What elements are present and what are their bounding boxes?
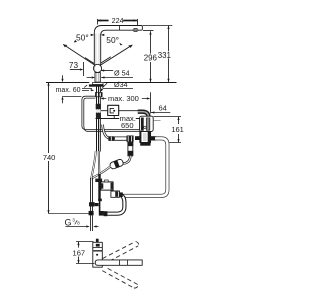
supply tail below dot [91, 215, 93, 231]
svg-text:740: 740 [43, 153, 56, 162]
counter hatch left [84, 85, 87, 87]
svg-text:G: G [65, 218, 72, 228]
check valve body [101, 182, 113, 190]
cross fitting [127, 136, 134, 143]
valve pipe right dark [98, 174, 100, 201]
dia34 arrows at tube [87, 77, 133, 79]
shank hoses below counter [97, 86, 101, 151]
fitting row left nut [108, 136, 114, 141]
outlet pipe loop (gray) [121, 138, 167, 196]
svg-text:296: 296 [144, 54, 158, 63]
dim 224 line [98, 19, 137, 21]
svg-text:50°: 50° [106, 35, 119, 45]
dim 167 [76, 242, 95, 264]
swivel line left [63, 44, 96, 66]
J hose [107, 194, 124, 213]
svg-text:Ø 54: Ø 54 [114, 69, 130, 78]
hose from filter to left pipe (crossing) [91, 166, 110, 178]
escutcheon [92, 83, 103, 85]
svg-text:50°: 50° [76, 33, 89, 43]
supply hose to box [101, 110, 138, 112]
svg-text:73: 73 [69, 61, 79, 70]
control box [140, 116, 154, 131]
svg-text:max. 300: max. 300 [108, 94, 139, 103]
dim 331 [168, 26, 170, 82]
box right connector [151, 136, 156, 140]
hose from bundle arcing to fitting row [103, 125, 112, 139]
label max 650 [119, 115, 136, 122]
outlet ellipse [133, 28, 138, 31]
svg-text:161: 161 [171, 125, 184, 134]
swivel line right [99, 45, 133, 66]
svg-text:max. 60: max. 60 [56, 87, 81, 94]
spout bar top view [95, 260, 142, 265]
control box lower body [140, 132, 151, 143]
dashed swivel lower [102, 268, 138, 288]
dim max60 [62, 75, 64, 103]
spout body (L shape) [94, 26, 142, 65]
small valve [111, 191, 120, 197]
counter top line left [46, 82, 89, 84]
tee fitting [89, 202, 95, 206]
ball joint [93, 64, 101, 72]
dashed swivel upper [102, 242, 138, 262]
svg-text:650: 650 [121, 121, 134, 130]
spout division lines [119, 26, 121, 31]
G38 connection arrows [66, 226, 99, 228]
counter hatch right [102, 83, 107, 88]
vertical fitting below box [128, 142, 133, 156]
mounting nut [95, 92, 102, 97]
shank connectors [96, 104, 101, 109]
svg-text:167: 167 [73, 248, 86, 257]
node G38 dot [90, 212, 93, 215]
svg-text:224: 224 [112, 16, 124, 25]
dim max300 [104, 98, 148, 100]
dim 161 [153, 117, 181, 143]
hose from fitting to filter [123, 156, 130, 164]
faucet body below ball [95, 72, 100, 82]
power plug square [108, 105, 119, 115]
counter bottom ext line [62, 96, 81, 98]
supply hose crossing to valve pipe [98, 151, 101, 175]
left supply pipe [91, 178, 93, 212]
control cable [96, 118, 140, 120]
dim 224 ext lines [98, 19, 138, 26]
svg-text:331: 331 [158, 51, 171, 60]
dim 296 [150, 31, 152, 82]
filter fitting [109, 159, 124, 170]
svg-text:64: 64 [159, 104, 167, 113]
body cylinder top view [96, 239, 99, 243]
bundle hose to left pipe [91, 151, 95, 178]
counter top line right [103, 82, 176, 84]
mounting flange dark [89, 84, 104, 86]
svg-text:Ø34: Ø34 [114, 80, 128, 89]
hose elbow into box [138, 112, 149, 118]
dim 740 [48, 82, 50, 213]
dim 740 bottom ext line [49, 213, 91, 215]
sensor cable U route [82, 96, 140, 129]
box left connector [135, 136, 140, 140]
fitting row tube [114, 137, 126, 140]
label dia54 [101, 70, 113, 72]
svg-text:3: 3 [72, 217, 75, 222]
svg-text:8: 8 [77, 221, 80, 226]
spout ext line top right [143, 25, 173, 27]
control box bottom cap [140, 142, 150, 145]
bottom nut [89, 211, 94, 215]
spout neck shading [96, 34, 99, 65]
max300 ext line [150, 92, 152, 113]
spout ext line under outlet [143, 30, 154, 32]
